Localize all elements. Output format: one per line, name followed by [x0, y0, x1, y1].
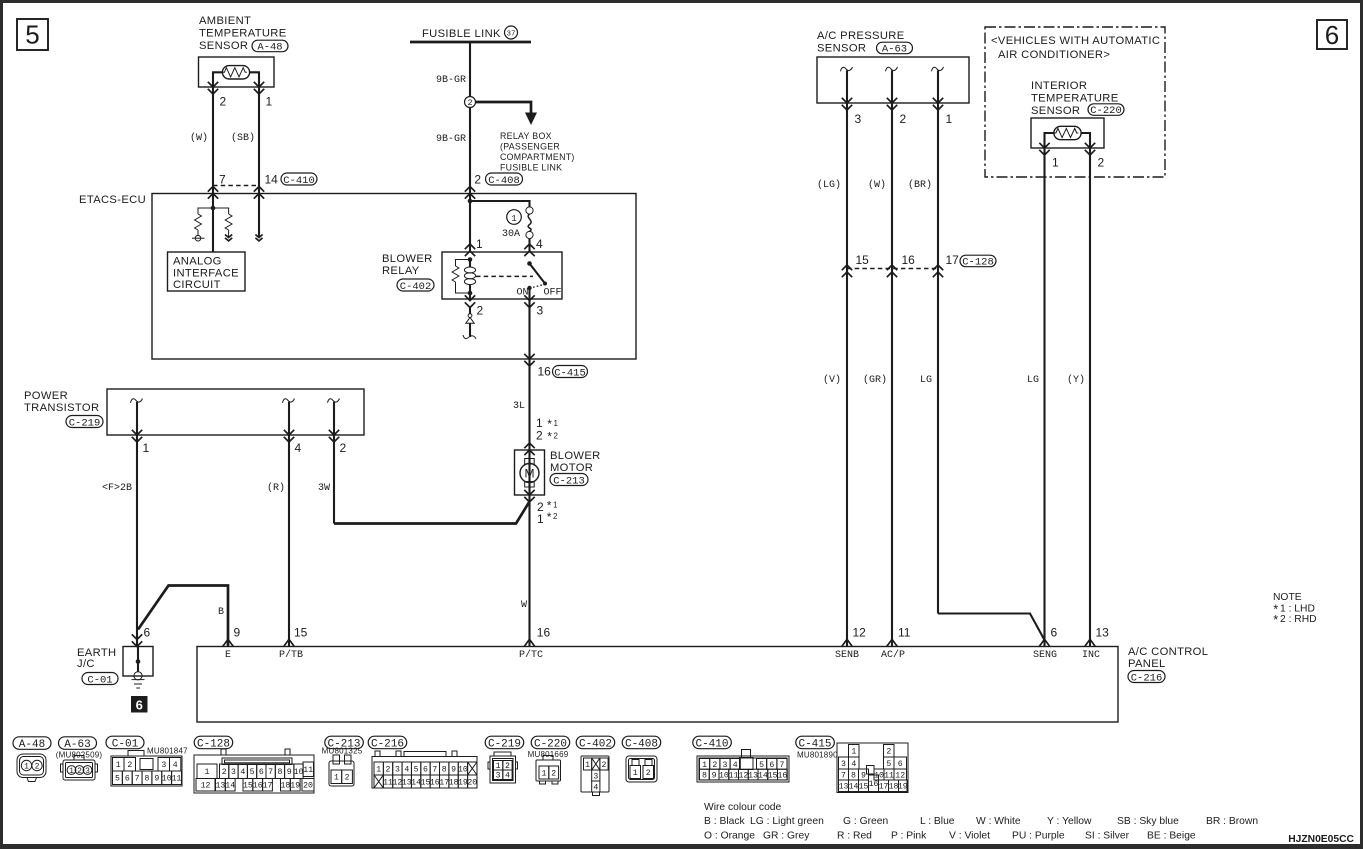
svg-text:8: 8 [442, 766, 447, 775]
svg-text:C-01: C-01 [87, 674, 112, 686]
svg-text:C-415: C-415 [554, 367, 586, 379]
svg-text:12: 12 [201, 782, 211, 791]
svg-text:6: 6 [769, 761, 774, 770]
svg-text:9: 9 [451, 766, 456, 775]
svg-text:C-220: C-220 [534, 739, 567, 751]
svg-text:SB : Sky blue: SB : Sky blue [1117, 816, 1179, 827]
svg-text:2 : RHD: 2 : RHD [1280, 614, 1317, 625]
svg-text:1: 1 [69, 767, 74, 776]
svg-text:INC: INC [1082, 650, 1100, 661]
svg-text:6: 6 [259, 768, 264, 777]
svg-text:B : Black: B : Black [704, 816, 745, 827]
svg-text:LG: LG [1027, 375, 1039, 386]
svg-text:(LG): (LG) [817, 179, 841, 191]
svg-text:W: W [521, 600, 527, 611]
svg-text:3: 3 [593, 773, 598, 782]
svg-text:G : Green: G : Green [843, 816, 888, 827]
svg-text:<F>2B: <F>2B [102, 483, 132, 494]
svg-text:4: 4 [240, 768, 245, 777]
svg-text:4: 4 [733, 761, 738, 770]
svg-text:11: 11 [729, 772, 739, 781]
svg-text:15: 15 [768, 772, 778, 781]
svg-text:6: 6 [144, 625, 151, 639]
svg-text:P/TC: P/TC [519, 649, 543, 661]
svg-text:2: 2 [900, 112, 907, 126]
svg-text:3L: 3L [513, 401, 525, 412]
svg-text:A/C CONTROL: A/C CONTROL [1128, 646, 1208, 658]
svg-text:C-402: C-402 [400, 281, 432, 293]
svg-text:1: 1 [511, 214, 516, 224]
svg-text:MU801890: MU801890 [797, 751, 838, 760]
svg-text:8: 8 [277, 768, 282, 777]
svg-text:5: 5 [886, 760, 891, 769]
svg-text:2: 2 [1098, 156, 1105, 170]
svg-text:L : Blue: L : Blue [920, 816, 955, 827]
svg-text:C-216: C-216 [371, 739, 404, 751]
svg-text:<VEHICLES WITH AUTOMATIC: <VEHICLES WITH AUTOMATIC [991, 35, 1160, 47]
svg-text:FUSIBLE LINK: FUSIBLE LINK [500, 163, 562, 173]
svg-text:7: 7 [780, 761, 785, 770]
svg-text:19: 19 [290, 782, 300, 791]
svg-text:BR : Brown: BR : Brown [1206, 816, 1258, 827]
svg-text:1: 1 [205, 768, 210, 777]
svg-text:5: 5 [115, 775, 120, 784]
svg-text:30A: 30A [502, 229, 520, 240]
svg-text:C-01: C-01 [112, 739, 139, 751]
svg-text:1: 1 [143, 441, 150, 455]
svg-text:ANALOG: ANALOG [173, 256, 222, 268]
svg-text:9: 9 [861, 772, 866, 781]
svg-text:A-63: A-63 [882, 44, 907, 56]
svg-text:2: 2 [536, 429, 543, 443]
svg-text:J/C: J/C [77, 658, 95, 670]
svg-text:CIRCUIT: CIRCUIT [173, 279, 221, 291]
svg-text:C-410: C-410 [283, 175, 315, 187]
svg-text:1: 1 [24, 763, 29, 772]
svg-text:RELAY: RELAY [382, 265, 420, 277]
svg-text:2: 2 [477, 304, 484, 318]
svg-text:Wire colour code: Wire colour code [704, 802, 782, 813]
svg-text:SI : Silver: SI : Silver [1085, 831, 1130, 842]
svg-text:13: 13 [839, 783, 849, 792]
svg-text:C-128: C-128 [962, 257, 994, 269]
svg-text:3: 3 [841, 760, 846, 769]
svg-text:1: 1 [585, 761, 590, 770]
svg-text:6: 6 [898, 760, 903, 769]
svg-text:7: 7 [268, 768, 273, 777]
svg-text:MOTOR: MOTOR [550, 462, 593, 474]
svg-text:SENSOR: SENSOR [817, 43, 866, 55]
svg-text:FUSIBLE LINK: FUSIBLE LINK [422, 28, 501, 40]
svg-text:SENG: SENG [1033, 650, 1057, 661]
svg-text:3: 3 [395, 766, 400, 775]
svg-text:C-220: C-220 [1090, 105, 1122, 117]
svg-text:15: 15 [243, 782, 253, 791]
svg-text:5: 5 [759, 761, 764, 770]
svg-text:13: 13 [1096, 626, 1110, 640]
svg-text:1: 1 [553, 501, 558, 510]
svg-text:(Y): (Y) [1067, 374, 1085, 386]
svg-text:*: * [546, 512, 553, 526]
svg-text:(W): (W) [190, 132, 208, 144]
svg-text:(R): (R) [267, 482, 285, 494]
svg-text:INTERIOR: INTERIOR [1031, 80, 1087, 92]
svg-text:16: 16 [253, 782, 263, 791]
svg-text:14: 14 [225, 782, 235, 791]
svg-text:2: 2 [886, 748, 891, 757]
svg-text:9: 9 [287, 768, 292, 777]
svg-text:8: 8 [851, 772, 856, 781]
svg-text:TEMPERATURE: TEMPERATURE [1031, 93, 1119, 105]
svg-text:4: 4 [173, 761, 178, 770]
svg-text:Y : Yellow: Y : Yellow [1047, 816, 1092, 827]
svg-text:NOTE: NOTE [1273, 592, 1302, 603]
svg-text:2: 2 [467, 98, 472, 108]
svg-text:17: 17 [946, 253, 960, 267]
svg-text:14: 14 [758, 772, 768, 781]
svg-text:2: 2 [220, 95, 227, 109]
svg-text:15: 15 [294, 626, 308, 640]
svg-text:8: 8 [702, 772, 707, 781]
svg-text:R : Red: R : Red [837, 831, 872, 842]
svg-text:C-410: C-410 [695, 739, 728, 751]
svg-text:13: 13 [215, 782, 225, 791]
svg-text:PANEL: PANEL [1128, 658, 1166, 670]
svg-text:7: 7 [135, 775, 140, 784]
svg-text:(W): (W) [868, 179, 886, 191]
svg-text:OFF: OFF [544, 288, 562, 299]
svg-text:MU801847: MU801847 [147, 747, 188, 756]
svg-text:5: 5 [414, 766, 419, 775]
svg-text:2: 2 [222, 768, 227, 777]
svg-text:(V): (V) [823, 374, 841, 386]
svg-text:P : Pink: P : Pink [891, 831, 927, 842]
svg-text:10: 10 [294, 768, 304, 777]
svg-text:B: B [218, 607, 224, 618]
svg-text:2: 2 [386, 766, 391, 775]
svg-text:12: 12 [738, 772, 748, 781]
svg-text:12: 12 [895, 772, 905, 781]
svg-text:GR : Grey: GR : Grey [763, 831, 810, 842]
svg-text:1: 1 [476, 237, 483, 251]
svg-text:6: 6 [125, 775, 130, 784]
svg-text:ETACS-ECU: ETACS-ECU [79, 194, 146, 206]
svg-text:LG: LG [920, 375, 932, 386]
svg-text:W : White: W : White [976, 816, 1021, 827]
svg-text:3: 3 [855, 112, 862, 126]
svg-text:BE : Beige: BE : Beige [1147, 831, 1196, 842]
svg-text:9B-GR: 9B-GR [436, 75, 466, 86]
svg-text:20: 20 [467, 779, 477, 788]
svg-text:1: 1 [266, 95, 273, 109]
svg-text:P/TB: P/TB [279, 649, 303, 661]
svg-text:*: * [546, 431, 553, 445]
svg-text:2: 2 [474, 173, 481, 187]
svg-text:15: 15 [856, 253, 870, 267]
svg-text:9: 9 [712, 772, 717, 781]
svg-text:11: 11 [303, 766, 313, 775]
svg-text:2: 2 [712, 761, 717, 770]
svg-text:BLOWER: BLOWER [550, 450, 601, 462]
svg-text:COMPARTMENT): COMPARTMENT) [500, 152, 575, 162]
svg-text:2: 2 [646, 769, 651, 778]
svg-text:9: 9 [154, 775, 159, 784]
svg-text:15: 15 [859, 783, 869, 792]
svg-text:A-63: A-63 [64, 739, 90, 751]
svg-text:9B-GR: 9B-GR [436, 134, 466, 145]
svg-text:AIR CONDITIONER>: AIR CONDITIONER> [998, 49, 1110, 61]
svg-text:14: 14 [265, 173, 279, 187]
svg-text:INTERFACE: INTERFACE [173, 268, 239, 280]
svg-text:3: 3 [537, 304, 544, 318]
svg-text:3: 3 [496, 772, 501, 781]
svg-text:5: 5 [25, 20, 39, 50]
svg-text:LG : Light green: LG : Light green [750, 816, 824, 827]
svg-text:SENSOR: SENSOR [1031, 105, 1080, 117]
svg-text:4: 4 [536, 237, 543, 251]
svg-text:MU801669: MU801669 [528, 750, 569, 759]
svg-text:1: 1 [633, 769, 638, 778]
svg-text:16: 16 [777, 772, 787, 781]
svg-text:2: 2 [340, 441, 347, 455]
svg-text:12: 12 [853, 626, 867, 640]
svg-text:(GR): (GR) [863, 374, 887, 386]
svg-text:3: 3 [723, 761, 728, 770]
svg-text:2: 2 [602, 761, 607, 770]
svg-text:TRANSISTOR: TRANSISTOR [24, 402, 99, 414]
svg-text:1: 1 [554, 419, 559, 428]
svg-text:10: 10 [162, 775, 172, 784]
svg-text:2: 2 [554, 432, 559, 441]
svg-text:1: 1 [541, 770, 546, 779]
svg-text:11: 11 [898, 626, 911, 640]
svg-text:11: 11 [172, 775, 182, 784]
svg-text:BLOWER: BLOWER [382, 253, 433, 265]
svg-text:7: 7 [219, 173, 226, 187]
svg-text:A-48: A-48 [19, 739, 45, 751]
svg-text:5: 5 [250, 768, 255, 777]
svg-text:C-219: C-219 [69, 417, 101, 429]
svg-text:A-48: A-48 [257, 42, 282, 54]
svg-text:6: 6 [423, 766, 428, 775]
svg-text:1: 1 [537, 512, 544, 526]
svg-text:2: 2 [553, 512, 558, 521]
svg-text:1: 1 [116, 761, 121, 770]
svg-text:1: 1 [1052, 156, 1059, 170]
svg-text:1: 1 [334, 774, 339, 783]
svg-text:3: 3 [231, 768, 236, 777]
svg-text:AC/P: AC/P [881, 649, 905, 661]
svg-text:11: 11 [884, 772, 894, 781]
svg-text:MU801325: MU801325 [322, 747, 363, 756]
svg-text:C-219: C-219 [488, 739, 521, 751]
svg-text:4: 4 [593, 784, 598, 793]
svg-text:7: 7 [432, 766, 437, 775]
svg-text:13: 13 [748, 772, 758, 781]
svg-text:9: 9 [234, 626, 241, 640]
svg-text:6: 6 [1325, 20, 1339, 50]
svg-text:A/C PRESSURE: A/C PRESSURE [817, 30, 905, 42]
svg-text:17: 17 [263, 782, 273, 791]
svg-text:TEMPERATURE: TEMPERATURE [199, 28, 287, 40]
svg-text:18: 18 [280, 782, 290, 791]
svg-text:PU : Purple: PU : Purple [1012, 831, 1065, 842]
svg-text:2: 2 [77, 767, 82, 776]
svg-text:*: * [1272, 615, 1280, 629]
svg-text:3: 3 [161, 761, 166, 770]
svg-text:SENB: SENB [835, 650, 859, 661]
svg-text:1: 1 [376, 766, 381, 775]
svg-text:C-408: C-408 [625, 739, 658, 751]
svg-text:SENSOR: SENSOR [199, 40, 248, 52]
svg-text:17: 17 [879, 783, 889, 792]
svg-text:M: M [525, 467, 535, 481]
svg-text:16: 16 [537, 626, 551, 640]
svg-text:3W: 3W [318, 483, 330, 494]
svg-text:10: 10 [719, 772, 729, 781]
svg-text:4: 4 [505, 772, 510, 781]
svg-text:HJZN0E05CC: HJZN0E05CC [1288, 834, 1354, 845]
svg-text:(BR): (BR) [908, 179, 932, 191]
svg-text:C-213: C-213 [553, 475, 585, 487]
svg-text:1 : LHD: 1 : LHD [1280, 604, 1315, 615]
svg-text:16: 16 [538, 365, 552, 379]
svg-text:4: 4 [295, 441, 302, 455]
svg-text:(SB): (SB) [231, 132, 255, 144]
svg-text:1: 1 [946, 112, 953, 126]
svg-text:6: 6 [136, 698, 143, 713]
svg-text:16: 16 [902, 253, 916, 267]
svg-text:C-402: C-402 [579, 739, 612, 751]
svg-text:1: 1 [702, 761, 707, 770]
svg-text:V : Violet: V : Violet [949, 831, 990, 842]
svg-text:(PASSENGER: (PASSENGER [500, 142, 560, 152]
svg-text:C-408: C-408 [488, 175, 520, 187]
svg-text:4: 4 [404, 766, 409, 775]
svg-text:C-415: C-415 [798, 739, 831, 751]
svg-text:POWER: POWER [24, 390, 68, 402]
svg-text:2: 2 [551, 770, 556, 779]
svg-text:37: 37 [506, 31, 515, 39]
svg-text:19: 19 [898, 783, 908, 792]
svg-text:8: 8 [145, 775, 150, 784]
svg-text:1: 1 [851, 748, 856, 757]
svg-text:7: 7 [841, 772, 846, 781]
svg-text:C-216: C-216 [1131, 672, 1163, 684]
svg-text:E: E [225, 650, 231, 661]
svg-text:14: 14 [849, 783, 859, 792]
svg-text:20: 20 [303, 782, 313, 791]
svg-text:16: 16 [869, 780, 879, 789]
svg-text:6: 6 [1051, 626, 1058, 640]
svg-text:O : Orange: O : Orange [704, 831, 755, 842]
svg-text:10: 10 [874, 772, 884, 781]
svg-text:AMBIENT: AMBIENT [199, 15, 251, 27]
svg-text:4: 4 [851, 760, 856, 769]
svg-text:10: 10 [458, 766, 468, 775]
svg-text:3: 3 [85, 767, 90, 776]
svg-text:RELAY BOX: RELAY BOX [500, 131, 552, 141]
svg-text:2: 2 [127, 761, 132, 770]
svg-text:2: 2 [35, 763, 40, 772]
svg-text:2: 2 [345, 774, 350, 783]
